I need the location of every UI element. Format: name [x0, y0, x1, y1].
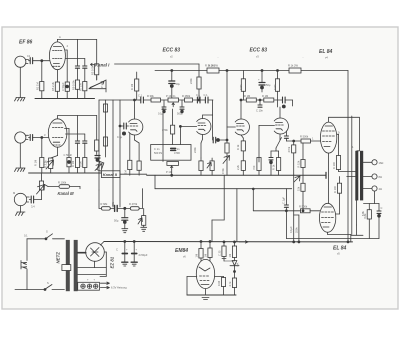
svg-text:R 100: R 100 [332, 162, 336, 169]
svg-text:100k: 100k [79, 161, 83, 167]
svg-text:EZ 81: EZ 81 [110, 256, 115, 268]
svg-text:P 1M lin: P 1M lin [166, 94, 176, 98]
svg-text:R 2,2k: R 2,2k [44, 160, 48, 168]
grid feed vertical from box [179, 126, 181, 144]
feedback bus [155, 188, 292, 190]
cathode junction wires [276, 138, 282, 149]
transformer T1 core / secondary winding [74, 240, 78, 291]
resistor R4 screen [65, 58, 84, 60]
resistor R38 [368, 204, 370, 210]
wire signal verticals [112, 100, 114, 207]
svg-text:0.1µ: 0.1µ [117, 135, 123, 139]
resistor R9 screen [66, 133, 85, 135]
svg-text:4700: 4700 [174, 151, 180, 155]
svg-text:15k: 15k [297, 186, 301, 191]
svg-text:R3 100k: R3 100k [91, 65, 95, 75]
potentiometer P8 [143, 208, 145, 215]
capacitor C20 [377, 210, 381, 212]
svg-text:C: C [381, 206, 383, 210]
input jack J3 [14, 193, 26, 205]
grid wire of V3b from tone row [212, 100, 214, 115]
svg-text:S: S [47, 281, 49, 285]
tube V7 EM84 [196, 259, 214, 288]
mains wires + switch S1 [27, 238, 46, 240]
svg-text:P 1M: P 1M [166, 170, 172, 174]
svg-text:C 10n: C 10n [256, 109, 263, 113]
svg-text:C 50µF: C 50µF [64, 153, 73, 157]
resistor R46 (center, below pot wiper) [172, 109, 174, 125]
wires through box [162, 108, 164, 162]
mains plug [21, 261, 27, 270]
svg-text:. .: . . [302, 56, 304, 59]
svg-text:. .: . . [217, 56, 219, 59]
svg-text:R 280k: R 280k [182, 94, 191, 98]
svg-text:R 1M: R 1M [34, 160, 38, 166]
ground J2 [15, 168, 26, 172]
resistor R39 [223, 242, 225, 246]
capacitor C23 grid V3a [119, 125, 121, 127]
svg-text:EL 84: EL 84 [319, 49, 332, 55]
svg-text:Kanal III: Kanal III [58, 191, 75, 196]
capacitor can box [78, 282, 100, 290]
resistor R11 (100k series) [45, 185, 49, 187]
capacitor C11 (to ground below pot) [163, 100, 165, 107]
resistor R36 (to grid EL84 #2) [301, 209, 311, 213]
resistor R15 (1M to grid) [136, 72, 138, 79]
B+ from cathode [101, 242, 105, 246]
resistor R42 [101, 202, 108, 206]
potentiometer P9 arrow [223, 156, 230, 164]
resistor R10 anode load [96, 116, 98, 141]
resistor R18 39k [151, 98, 161, 102]
svg-text:S: S [46, 230, 48, 234]
terminal out1 [372, 160, 377, 165]
screen wire V6 + resistor R47 [336, 213, 340, 215]
capacitor C9 [196, 97, 198, 103]
terminal out3 [372, 186, 377, 191]
fuse box [62, 265, 71, 271]
node Kanal II box [102, 171, 121, 178]
anode feed V4 rail drop / grid V4a [226, 71, 228, 144]
svg-text:100k: 100k [239, 84, 243, 90]
svg-text:C 25: C 25 [218, 250, 222, 256]
svg-text:EL 84: EL 84 [333, 246, 346, 252]
svg-text:100k: 100k [273, 84, 277, 90]
resistor R17 cathode V3a [134, 135, 136, 140]
switch S2 [15, 289, 45, 291]
svg-text:C.1µF: C.1µF [282, 196, 286, 204]
svg-text:R 1k: R 1k [272, 164, 276, 170]
triode V4a [235, 119, 249, 135]
triode V3a [129, 119, 143, 135]
tube V6 EL84 #2 [319, 203, 335, 232]
svg-text:C.1: C.1 [196, 93, 201, 97]
svg-text:R1 1M: R1 1M [36, 82, 40, 90]
B+ rail [155, 70, 207, 72]
capacitor C6 coupling [75, 140, 79, 142]
potentiometer P1 (volume) [89, 80, 106, 89]
svg-text:R 500k: R 500k [300, 135, 309, 139]
capacitor C2 cathode bypass [65, 49, 67, 51]
capacitor C17 [270, 151, 272, 158]
resistor R28 anode V4b [277, 71, 279, 79]
svg-text:R 1k 2W: R 1k 2W [288, 64, 298, 68]
resistor R23 cathode V4a [241, 135, 243, 138]
svg-text:50µ: 50µ [176, 82, 181, 86]
svg-text:NETZ: NETZ [56, 252, 61, 264]
svg-text:0,1µF: 0,1µF [289, 226, 293, 233]
resistor R1 grid leak [41, 61, 43, 82]
svg-text:ECC 83: ECC 83 [163, 48, 181, 54]
svg-text:470k: 470k [287, 146, 291, 152]
svg-text:R 100: R 100 [333, 186, 337, 193]
svg-text:R 500k: R 500k [299, 204, 308, 208]
resistor R12 (rail, 1k) [207, 68, 219, 73]
wire EM84 aux [224, 260, 235, 262]
potentiometer P4 [168, 98, 179, 102]
svg-text:4,7k: 4,7k [228, 281, 232, 287]
capacitor C18 [285, 131, 287, 136]
capacitor C16 elec (rail decoupling) [261, 71, 263, 83]
resistor R19 [185, 98, 193, 102]
svg-text:R 15k: R 15k [297, 160, 301, 167]
svg-text:2×50µF: 2×50µF [139, 253, 148, 257]
resistor R20 cathode V3b [202, 135, 204, 140]
svg-text:R 1k 2W: R 1k 2W [208, 63, 218, 67]
resistor R37 (screen stopper) [337, 133, 339, 135]
node Kanal I arrow + wire [95, 63, 110, 68]
svg-text:R 1M: R 1M [262, 94, 268, 98]
resistor R13 (rail) [289, 68, 301, 73]
label EF86 [19, 40, 33, 46]
svg-text:R9 100k: R9 100k [72, 80, 76, 90]
svg-text:50µ: 50µ [266, 83, 271, 87]
svg-text:R 68k: R 68k [101, 202, 108, 206]
feedback rail lower [286, 238, 379, 240]
ground J1 (hatched) [15, 98, 26, 102]
svg-text:250k: 250k [295, 227, 299, 233]
svg-text:470k: 470k [221, 168, 225, 174]
capacitor C1 (series grid cap) [29, 60, 31, 62]
triode V3b [197, 118, 211, 134]
junction dots on B+ rail2 [293, 241, 295, 243]
filter capacitor C21 + C22 [124, 242, 126, 254]
capacitor C26 [110, 207, 114, 209]
svg-text:50µ: 50µ [114, 219, 119, 223]
resistor R22 [200, 158, 202, 161]
potentiometer P7 (balance) [294, 176, 300, 182]
svg-text:OA: OA [236, 262, 240, 266]
tube V2 EF86 [48, 119, 67, 147]
potentiometer P5 below box [167, 162, 179, 166]
resistor R26 [264, 98, 274, 102]
capacitor C13 in box [171, 147, 176, 149]
capacitor C12 [181, 100, 183, 107]
B+ rail 2 (main HT bus) [104, 241, 353, 243]
svg-text:1M: 1M [195, 254, 199, 258]
svg-text:4Ω: 4Ω [379, 187, 382, 191]
heater loop wires [78, 267, 107, 269]
svg-text:500 Pk: 500 Pk [154, 151, 163, 155]
anode R for V4a: resistor R27 [242, 71, 244, 79]
resistor R5 anode load [96, 39, 98, 63]
svg-text:C: C [116, 248, 118, 252]
rectifier EZ81 [86, 243, 105, 262]
wires down to B+ rail 2 [293, 215, 295, 242]
svg-text:R 1M: R 1M [244, 94, 250, 98]
resistor R45 [103, 137, 107, 146]
capacitor C19 [285, 189, 287, 205]
svg-text:6,8k: 6,8k [363, 213, 367, 219]
resistor R8 [75, 158, 79, 168]
resistor R21 [225, 143, 229, 153]
potentiometer P3 (vertical with arrow) [41, 190, 43, 200]
capacitor C10 [204, 97, 206, 103]
capacitor C15 (10n below) [259, 100, 261, 105]
resistor R3 [75, 80, 79, 89]
wire from 4ohm tap down [374, 191, 376, 203]
capacitor C27 to ground [124, 208, 126, 217]
input jack J1 [15, 56, 26, 67]
svg-text:R 470k: R 470k [129, 202, 138, 206]
resistor R40 [234, 242, 236, 246]
main lower bus [147, 174, 326, 176]
svg-text:ECC 83: ECC 83 [250, 48, 268, 54]
svg-text:1M: 1M [228, 254, 232, 258]
row 2 coupling: resistor R25 [240, 99, 242, 101]
svg-text:220k: 220k [193, 147, 197, 153]
capacitor C5 cathode bypass [65, 128, 70, 130]
anode wire stage2 [58, 115, 97, 117]
svg-text:EM84: EM84 [175, 248, 188, 254]
capacitor C8 [139, 99, 141, 101]
svg-text:1M: 1M [204, 254, 208, 258]
svg-text:10M: 10M [217, 281, 221, 286]
transformer T2 windings [355, 151, 358, 201]
resistor R48 grid EM84 [215, 276, 224, 278]
terminal out2 [372, 174, 377, 179]
transformer vertical wires below [356, 200, 358, 225]
tube V1 EF86 [49, 42, 65, 70]
anode wire [57, 38, 77, 40]
resistor R24 [241, 161, 245, 171]
resistor R43 [129, 202, 138, 206]
capacitor C28 coupling out of V3b [212, 115, 214, 140]
potentiometer P6 [211, 158, 213, 161]
svg-text:Kanal I: Kanal I [95, 63, 110, 68]
svg-text:3,4: 3,4 [31, 205, 35, 209]
svg-text:R5 2,2k: R5 2,2k [51, 81, 55, 91]
svg-text:Kanal II: Kanal II [103, 172, 118, 177]
ground bus stage 2 [29, 172, 102, 174]
capacitor C24 (rail decoupling) [171, 70, 173, 72]
svg-text:6.3V Heizung: 6.3V Heizung [111, 286, 127, 290]
svg-text:C 50µF: C 50µF [61, 82, 65, 91]
grid wire [187, 276, 197, 278]
svg-text:R 39k: R 39k [147, 94, 154, 98]
capacitor C14 [282, 97, 284, 103]
wire row left + mixing column [99, 99, 141, 101]
resistor R2 cathode [55, 82, 59, 91]
resistor R31 [278, 151, 280, 158]
ground bus stage 1 [35, 98, 95, 100]
resistor R29 [257, 158, 261, 171]
svg-text:R7 1M: R7 1M [79, 83, 83, 91]
svg-text:P 1M: P 1M [100, 82, 104, 88]
input jack J2 [15, 132, 26, 143]
svg-text:16Ω: 16Ω [379, 161, 384, 165]
capacitor C7 [29, 199, 31, 201]
cathode + potentiometer P10 [57, 147, 59, 155]
svg-text:M: M [13, 191, 15, 195]
resistor R14 anode triode1 [198, 71, 200, 78]
svg-text:68k: 68k [111, 201, 115, 206]
svg-text:1M: 1M [124, 170, 128, 174]
resistor R16 grid leak V3a [129, 133, 131, 160]
resistor R34 [302, 143, 304, 160]
triode V4b [274, 118, 288, 134]
resistor R35 [301, 183, 305, 191]
svg-text:C1: C1 [27, 54, 31, 58]
secondary taps [363, 161, 372, 163]
resistor R6 grid leak [41, 138, 43, 158]
svg-text:R 1k: R 1k [236, 144, 240, 150]
svg-text:R 1M: R 1M [71, 161, 75, 167]
resistor R44 [103, 104, 107, 112]
svg-text:500p: 500p [177, 112, 183, 116]
capacitor C29 elec [95, 155, 100, 157]
resistor R41 [232, 278, 236, 288]
ground bus EM84 [187, 294, 236, 296]
resistor R32 (to grid EL84 #1) [301, 139, 311, 143]
svg-text:C.1: C.1 [204, 93, 209, 97]
svg-text:2,2k: 2,2k [236, 164, 240, 170]
svg-text:8Ω: 8Ω [379, 175, 382, 179]
svg-text:220k: 220k [189, 78, 193, 84]
capacitor C4 [29, 137, 31, 139]
potentiometer P2 [98, 160, 101, 162]
wire grid [33, 60, 50, 62]
grid line V3b from tone box [180, 125, 196, 127]
svg-text:EF 86: EF 86 [19, 40, 33, 46]
svg-text:700: 700 [252, 165, 256, 170]
long vertical B+ feeds on right [347, 71, 349, 243]
svg-text:C.1: C.1 [138, 94, 143, 98]
svg-text:C 1n: C 1n [154, 147, 160, 151]
capacitor C3 coupling [75, 65, 79, 67]
tube V5 EL84 #1 [320, 122, 336, 153]
heater arrows [100, 282, 109, 284]
svg-text:R 100k: R 100k [58, 180, 67, 184]
transformer T1 power primary winding [66, 240, 70, 265]
arrow on rail [239, 241, 248, 243]
resistor R33 [293, 141, 295, 145]
svg-text:0,1: 0,1 [24, 234, 28, 238]
svg-text:A: A [59, 35, 61, 39]
svg-text:R 1M: R 1M [130, 84, 134, 90]
tone box [151, 145, 191, 161]
diode D1 [232, 261, 237, 266]
